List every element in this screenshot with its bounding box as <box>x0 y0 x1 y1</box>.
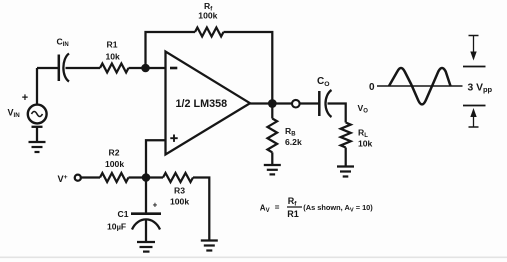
svg-text:R3: R3 <box>174 186 185 196</box>
svg-text:3 Vpp: 3 Vpp <box>468 82 493 94</box>
svg-text:100k: 100k <box>198 10 217 20</box>
svg-text:CIN: CIN <box>57 37 69 49</box>
svg-text:V+: V+ <box>58 174 68 184</box>
svg-text:(As shown, AV = 10): (As shown, AV = 10) <box>303 203 373 213</box>
svg-text:CO: CO <box>317 76 330 88</box>
svg-text:0: 0 <box>369 82 375 93</box>
svg-text:=: = <box>275 203 280 212</box>
svg-text:1/2 LM358: 1/2 LM358 <box>176 98 228 110</box>
svg-text:10k: 10k <box>358 139 373 149</box>
svg-text:R1: R1 <box>107 40 118 50</box>
svg-text:Rf: Rf <box>288 196 298 208</box>
svg-text:10k: 10k <box>106 52 121 62</box>
svg-text:R2: R2 <box>109 148 120 158</box>
svg-text:10µF: 10µF <box>107 222 126 232</box>
svg-text:R1: R1 <box>287 209 299 219</box>
svg-text:100k: 100k <box>170 197 189 207</box>
svg-text:RL: RL <box>358 128 368 140</box>
svg-text:RB: RB <box>285 126 296 138</box>
svg-text:VO: VO <box>358 103 369 115</box>
svg-text:100k: 100k <box>105 159 124 169</box>
svg-text:6.2k: 6.2k <box>285 137 302 147</box>
svg-text:C1: C1 <box>118 209 129 219</box>
svg-text:AV: AV <box>260 203 270 214</box>
svg-text:+: + <box>153 201 158 210</box>
svg-text:VIN: VIN <box>8 108 21 120</box>
svg-text:+: + <box>22 92 28 104</box>
